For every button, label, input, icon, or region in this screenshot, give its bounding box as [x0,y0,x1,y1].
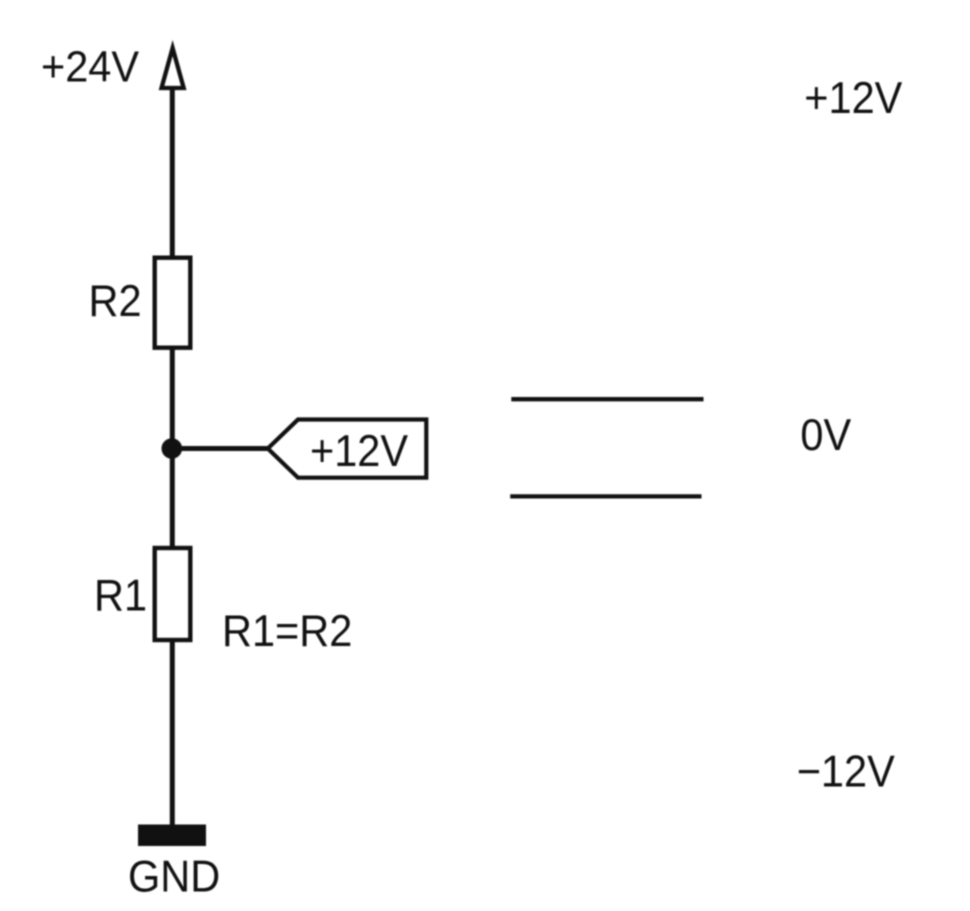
svg-text:−12V: −12V [797,747,895,797]
wire node to tag [172,446,270,451]
wire node to R1 [170,449,175,548]
power arrow +24V [162,48,184,88]
svg-text:R1: R1 [94,571,147,621]
wire arrow to R2 [170,88,175,257]
net tag +12V outline [268,420,427,478]
svg-text:R1=R2: R1=R2 [222,607,352,657]
rail line 0V lower [510,494,701,498]
rail line +12V to 0V [511,397,703,401]
resistor R2 [155,258,191,348]
wire R1 to ground [170,640,175,828]
ground bar [138,825,206,847]
resistor R1 [155,548,191,640]
wire R2 to node [170,348,175,449]
svg-text:+24V: +24V [41,43,140,91]
node junction dot [162,438,183,459]
svg-text:R2: R2 [89,277,142,327]
svg-text:GND: GND [128,852,220,902]
svg-text:0V: 0V [800,411,851,461]
svg-text:+12V: +12V [804,74,902,124]
svg-text:+12V: +12V [310,427,408,477]
